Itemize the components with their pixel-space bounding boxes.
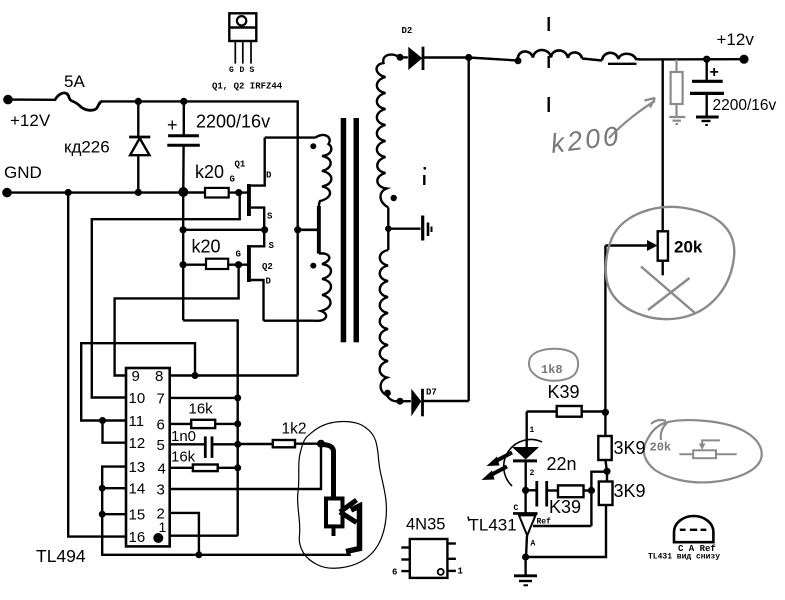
node primary upper phase dot	[310, 143, 316, 149]
wire 3K9 lower to TL431 anode	[526, 505, 606, 557]
wire pin7 row	[170, 397, 238, 399]
svg-text:S: S	[250, 66, 255, 75]
regulator U3 TL431	[513, 490, 538, 557]
svg-text:TL431: TL431	[469, 516, 517, 535]
svg-text:8: 8	[155, 368, 163, 385]
node pin14 tie	[99, 485, 106, 492]
svg-text:D: D	[266, 171, 272, 181]
node pin11-12 tie	[99, 417, 106, 424]
transformer T1 primary lower winding	[314, 253, 332, 320]
svg-text:G: G	[236, 250, 241, 260]
wire pin16 ground vertical x68	[68, 193, 126, 537]
node center tap feed junction	[294, 226, 301, 233]
wire pin15 stub	[102, 513, 126, 515]
transformer T1 core bar left	[341, 118, 347, 342]
resistor 16k pin6	[191, 420, 215, 428]
svg-text:16k: 16k	[171, 449, 196, 466]
transformer T1 core bar right	[354, 118, 360, 342]
wire L2 core bar	[608, 63, 637, 65]
diode D7	[400, 58, 469, 417]
svg-text:20k: 20k	[674, 238, 703, 257]
svg-text:D7: D7	[426, 388, 437, 398]
svg-text:G: G	[229, 66, 234, 75]
svg-text:3K9: 3K9	[614, 481, 646, 501]
wire 1k2 to feedback node	[295, 443, 321, 445]
wire ground vertical x183	[182, 192, 184, 320]
resistor 1k2	[273, 440, 295, 447]
wire fuse to diode node	[103, 100, 139, 102]
wire freehand loop around pot	[298, 421, 387, 568]
wire 20k wiper arm	[605, 240, 657, 412]
svg-text:TL431 вид снизу: TL431 вид снизу	[648, 553, 720, 562]
node +12v output terminal	[739, 55, 748, 64]
svg-text:20k: 20k	[650, 441, 672, 455]
node Q1 gate	[235, 189, 242, 196]
wire pin2 drop	[170, 513, 199, 555]
opto LED D3	[512, 412, 539, 491]
node secondary upper phase dot	[391, 195, 397, 201]
resistor k20 upper gate	[205, 188, 229, 198]
svg-text:9: 9	[132, 368, 140, 385]
svg-text:11: 11	[129, 413, 145, 430]
svg-text:6: 6	[392, 568, 397, 578]
ground output cap	[696, 117, 719, 125]
node pin8 tie junction	[192, 372, 199, 379]
svg-text:D: D	[240, 66, 245, 75]
potentiometer 20k body	[658, 231, 668, 260]
wire GND rail	[7, 191, 205, 194]
wire 20k bottom stub	[662, 261, 664, 276]
wire k20 to Q1 gate	[229, 191, 248, 193]
wire pin4 lead	[170, 467, 193, 469]
wire pin12 jog	[103, 421, 127, 443]
resistor K39 upper	[527, 406, 606, 417]
wire center tap feed down to pin8 row	[297, 230, 299, 376]
package TO-220 drawing	[229, 13, 256, 63]
svg-text:16k: 16k	[189, 401, 214, 418]
svg-text:1k8: 1k8	[541, 363, 563, 377]
resistor 3K9 upper	[598, 436, 611, 460]
svg-text:10: 10	[129, 390, 146, 407]
svg-text:D2: D2	[402, 26, 413, 36]
node between 3K9s	[603, 468, 610, 475]
node +12V input terminal	[3, 95, 13, 105]
node capacitor top junction	[180, 98, 187, 105]
svg-text:3: 3	[157, 482, 165, 499]
svg-text:G: G	[230, 175, 235, 185]
node K39 upper right junction	[602, 409, 609, 416]
svg-text:+12v: +12v	[717, 30, 755, 49]
wire k20 lower to Q2 gate	[228, 264, 247, 266]
transformer T1 secondary upper winding	[377, 55, 400, 208]
wire opto arc	[504, 440, 542, 486]
svg-text:+: +	[167, 115, 178, 135]
wire pin1 row	[170, 535, 238, 537]
node pin4 gnd junction	[234, 464, 241, 471]
svg-text:2200/16v: 2200/16v	[196, 112, 270, 132]
transformer T1 primary upper winding	[315, 135, 331, 206]
svg-text:4N35: 4N35	[406, 516, 445, 534]
wire rectifier node to inductor	[469, 58, 518, 61]
node pin15 tie	[99, 511, 106, 518]
svg-text:C: C	[514, 504, 519, 513]
node output cap junction	[703, 56, 710, 63]
node secondary top end	[397, 54, 404, 61]
svg-text:1: 1	[530, 426, 535, 435]
optocoupler U2 4N35 body	[401, 539, 456, 578]
wire jog between-3K9 to ref node	[591, 472, 607, 526]
svg-text:1: 1	[159, 519, 167, 535]
resistor K39 lower	[558, 485, 584, 497]
capacitor 22n	[526, 481, 558, 507]
node secondary lower phase dot	[384, 390, 391, 397]
svg-text:+: +	[710, 64, 719, 81]
svg-text:Q2: Q2	[262, 262, 273, 272]
wire 3K9 junction leads	[605, 412, 607, 481]
wire pin6 lead	[170, 423, 192, 425]
transistor Q1	[247, 138, 265, 230]
wire source rail to ground vertical	[183, 229, 265, 231]
wire 16k pin4 to gnd rail	[218, 467, 238, 469]
resistor k20 lower gate	[206, 259, 228, 269]
svg-text:5: 5	[157, 437, 165, 454]
wire output rail	[641, 58, 744, 61]
node TL431 anode junction	[522, 553, 529, 560]
svg-text:2200/16v: 2200/16v	[713, 97, 777, 114]
svg-text:15: 15	[129, 507, 146, 524]
diode D2	[400, 47, 469, 70]
wire pin8 row	[170, 374, 298, 376]
svg-text:k20: k20	[192, 237, 221, 257]
node D7 anode end	[397, 398, 404, 405]
blob 20k grey right	[644, 420, 762, 482]
wire top rail to center-tap feed corner	[184, 101, 298, 229]
svg-text:Q1: Q1	[235, 160, 246, 170]
wire tiny tick near TL431 label	[468, 517, 469, 522]
capacitor 1n0	[205, 436, 212, 458]
svg-text:12: 12	[129, 435, 146, 452]
capacitor C1 2200/16v input	[167, 101, 200, 191]
svg-text:K39: K39	[548, 382, 580, 402]
wire ground jog to pin7	[183, 320, 238, 535]
wire top rail to capacitor node	[138, 100, 184, 102]
svg-text:6: 6	[157, 416, 165, 433]
node primary lower phase dot	[310, 263, 316, 269]
wire pin3 row to feedback node	[170, 444, 321, 489]
node sources junction	[261, 226, 268, 233]
transformer T1 secondary lower winding	[380, 250, 400, 401]
wire pin9 drive vertical x115	[115, 265, 239, 376]
node GND junction to pin16	[65, 189, 72, 196]
svg-text:4: 4	[158, 460, 166, 477]
node LED cathode 22n junction	[522, 487, 529, 494]
svg-text:1n0: 1n0	[171, 428, 196, 445]
svg-text:Q1, Q2 IRFZ44: Q1, Q2 IRFZ44	[212, 82, 283, 92]
diode кд226	[129, 101, 150, 192]
svg-text:A: A	[531, 540, 536, 549]
svg-text:кд226: кд226	[64, 138, 110, 157]
svg-text:16: 16	[129, 529, 146, 546]
svg-text:K39: K39	[549, 497, 581, 517]
wire pin5 lead	[170, 443, 205, 445]
ground TL431	[514, 557, 537, 585]
node source rail left junction	[180, 226, 187, 233]
svg-text:7: 7	[157, 390, 165, 407]
wire pin11 vertical x81	[81, 343, 195, 420]
svg-text:Ref: Ref	[537, 518, 552, 527]
node GND main junction	[178, 187, 188, 197]
wire 1n0 to gnd rail	[212, 443, 238, 445]
wire 20k feed from output rail	[662, 60, 664, 232]
svg-text:k20: k20	[195, 162, 224, 182]
node pin1 dot	[153, 533, 163, 543]
node GND diode junction	[135, 189, 142, 196]
wire 16k to gnd rail	[215, 423, 238, 425]
node ref 22n junction	[588, 487, 595, 494]
node inductor start	[515, 57, 522, 64]
node pin5 gnd junction	[234, 441, 241, 448]
svg-text:2: 2	[530, 469, 535, 478]
svg-text:3K9: 3K9	[614, 438, 646, 458]
inductor L1	[518, 50, 582, 61]
svg-text:S: S	[267, 212, 273, 222]
ground secondary center	[423, 216, 432, 241]
svg-text:14: 14	[129, 481, 146, 498]
svg-text:TL494: TL494	[36, 546, 86, 566]
node feedback 1k2 junction	[317, 440, 325, 448]
resistor 3K9 lower	[599, 482, 613, 506]
svg-text:22n: 22n	[547, 454, 577, 474]
wire pin14 stub	[102, 487, 126, 489]
wire Q2 drain to primary bottom	[264, 320, 314, 322]
inductor L2	[602, 53, 641, 61]
wire grey X cross	[641, 267, 695, 314]
capacitor C2 2200/16v output	[690, 59, 724, 116]
wire k200 annotation arrow (grey)	[609, 98, 655, 138]
wire TL431 ref lead	[533, 525, 591, 527]
svg-text:13: 13	[129, 459, 146, 476]
node pin6 gnd junction	[234, 420, 241, 427]
svg-text:D: D	[266, 277, 272, 287]
fuse F1 5A	[55, 93, 103, 110]
svg-text:5A: 5A	[64, 72, 85, 91]
potentiometer hand-drawn black (marker)	[321, 445, 360, 552]
transformer T1 center tap bar	[317, 206, 321, 254]
svg-text:+12V: +12V	[10, 111, 51, 130]
resistor 16k pin4	[193, 465, 218, 472]
wire pin10 drive vertical x92	[92, 193, 240, 398]
node k20 lower left junction	[180, 261, 187, 268]
wire dashed core line	[548, 17, 550, 112]
wire center tap to ground	[388, 227, 420, 229]
wire LED emission arrows	[482, 453, 513, 481]
chip U1 TL494 body	[126, 368, 170, 546]
wire between inductors	[582, 59, 602, 61]
node Q2 gate	[235, 261, 242, 268]
wire center tap branch	[298, 229, 317, 232]
svg-text:1: 1	[458, 567, 464, 577]
node diode top junction	[135, 98, 142, 105]
potentiometer grey symbol in blob	[679, 440, 736, 458]
wire dash mark near secondary	[423, 167, 426, 185]
svg-text:S: S	[269, 241, 275, 251]
node pin7 gnd junction	[234, 394, 241, 401]
node bottom rail pin2 junction	[195, 551, 202, 558]
svg-text:1k2: 1k2	[282, 421, 307, 438]
svg-text:GND: GND	[4, 163, 42, 182]
wire Q1 drain to primary top	[265, 136, 316, 138]
transistor Q2	[247, 230, 264, 321]
blob 1k8 grey	[529, 349, 578, 381]
ellipse grey around 20k pot	[606, 207, 735, 319]
wire K39 lower to ref node	[584, 489, 592, 491]
wire to k20 lower	[183, 264, 206, 266]
node secondary center tap	[385, 226, 391, 232]
wire secondary center straight	[387, 208, 389, 251]
node GND input terminal	[2, 188, 12, 198]
wire +12V input to fuse	[8, 98, 56, 101]
wire pin13-14-15 tie	[102, 467, 351, 555]
package TL431 bottom view drawing	[674, 516, 713, 542]
resistor k200 (grey)	[669, 60, 685, 125]
wire gnd node to 1k2	[238, 443, 273, 445]
node rectifier output junction	[465, 54, 472, 61]
